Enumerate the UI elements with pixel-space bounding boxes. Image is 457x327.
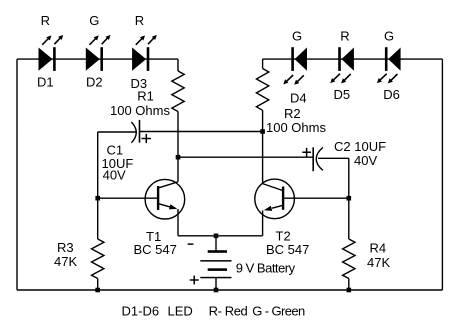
svg-text:D1-D6: D1-D6 — [122, 303, 160, 318]
svg-text:R1: R1 — [137, 89, 154, 104]
svg-text:47K: 47K — [367, 255, 390, 270]
svg-text:R: R — [135, 13, 144, 28]
svg-text:C1: C1 — [107, 142, 124, 157]
svg-text:R- Red: R- Red — [209, 303, 248, 318]
svg-text:R2: R2 — [284, 106, 301, 121]
svg-text:C2 10UF: C2 10UF — [334, 139, 386, 154]
svg-text:D1: D1 — [37, 75, 54, 90]
svg-text:T2: T2 — [276, 228, 291, 243]
svg-text:9 V Battery: 9 V Battery — [236, 260, 296, 275]
svg-text:D4: D4 — [290, 91, 307, 106]
svg-text:G - Green: G - Green — [252, 303, 305, 318]
svg-text:R: R — [340, 29, 349, 44]
svg-text:G: G — [292, 29, 302, 44]
svg-text:D5: D5 — [334, 87, 351, 102]
svg-text:47K: 47K — [54, 254, 77, 269]
svg-text:100 Ohms: 100 Ohms — [110, 103, 170, 118]
svg-text:LED: LED — [168, 303, 193, 318]
svg-text:100 Ohms: 100 Ohms — [266, 120, 326, 135]
svg-text:G: G — [89, 13, 99, 28]
svg-text:D6: D6 — [383, 87, 400, 102]
svg-text:BC 547: BC 547 — [134, 242, 177, 257]
svg-text:40V: 40V — [354, 153, 377, 168]
svg-text:R4: R4 — [370, 241, 387, 256]
svg-text:D2: D2 — [86, 75, 103, 90]
svg-text:R: R — [41, 13, 50, 28]
svg-text:R3: R3 — [57, 240, 74, 255]
svg-text:G: G — [384, 29, 394, 44]
svg-text:40V: 40V — [103, 168, 126, 183]
svg-text:BC 547: BC 547 — [266, 242, 309, 257]
